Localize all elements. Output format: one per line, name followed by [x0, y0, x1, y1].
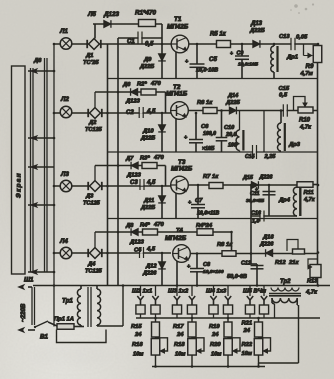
svg-text:20,0: 20,0: [225, 132, 237, 138]
svg-text:Д6: Д6: [122, 82, 131, 88]
svg-text:С5: С5: [209, 56, 217, 63]
svg-text:Д8: Д8: [125, 223, 134, 229]
svg-text:МП42Б: МП42Б: [165, 235, 187, 242]
svg-text:+: +: [230, 51, 233, 57]
svg-text:24: 24: [176, 332, 184, 338]
svg-text:R5 1к: R5 1к: [210, 32, 227, 38]
svg-text:R19: R19: [209, 324, 220, 330]
svg-text:100,0: 100,0: [203, 131, 216, 137]
svg-text:R7 1к: R7 1к: [203, 174, 219, 180]
svg-text:100: 100: [228, 143, 237, 149]
svg-text:С1: С1: [127, 39, 135, 45]
svg-text:R20: R20: [210, 342, 221, 348]
svg-text:R22: R22: [242, 342, 253, 348]
svg-text:Л4: Л4: [59, 238, 68, 245]
svg-text:R12: R12: [275, 260, 286, 266]
svg-text:С13: С13: [279, 34, 290, 40]
svg-text:R1*470: R1*470: [135, 10, 157, 17]
svg-text:10м: 10м: [242, 351, 253, 357]
svg-text:4,7к: 4,7к: [303, 197, 316, 203]
svg-text:Тр1: Тр1: [62, 298, 73, 305]
svg-text:1,0: 1,0: [252, 219, 260, 225]
svg-text:30,0×5Б: 30,0×5Б: [246, 198, 265, 204]
svg-text:R17: R17: [173, 324, 184, 330]
svg-text:10,0×100: 10,0×100: [203, 269, 224, 275]
svg-text:10м: 10м: [175, 352, 186, 358]
svg-text:ТС125: ТС125: [85, 269, 103, 275]
svg-text:R15: R15: [131, 324, 142, 330]
svg-text:Ш5 ВЧм: Ш5 ВЧм: [243, 289, 267, 295]
svg-text:Д123: Д123: [103, 11, 120, 18]
svg-text:Л2: Л2: [60, 96, 69, 103]
svg-text:R4*: R4*: [140, 223, 150, 229]
svg-text:С4: С4: [134, 248, 142, 254]
svg-text:С10: С10: [224, 125, 235, 131]
svg-text:Д226: Д226: [259, 175, 274, 181]
svg-text:10м: 10м: [133, 352, 144, 358]
svg-text:Пр1 1А: Пр1 1А: [54, 317, 74, 323]
svg-text:Д22Б: Д22Б: [140, 205, 155, 211]
svg-text:Д4: Д4: [87, 262, 96, 268]
svg-text:Д9: Д9: [143, 57, 152, 63]
svg-text:24: 24: [134, 332, 142, 338]
svg-text:МП42Б: МП42Б: [171, 166, 193, 173]
svg-text:R8 1к: R8 1к: [217, 242, 233, 248]
svg-text:0,5: 0,5: [279, 93, 288, 99]
svg-text:R11: R11: [304, 190, 314, 196]
svg-text:Д3: Д3: [85, 194, 94, 200]
svg-text:R21: R21: [242, 321, 253, 327]
svg-text:R4*24: R4*24: [196, 223, 213, 229]
svg-text:×10Б: ×10Б: [202, 146, 215, 152]
svg-text:Ш4 1х3: Ш4 1х3: [206, 289, 227, 295]
svg-text:Др3: Др3: [288, 142, 301, 148]
svg-text:R13: R13: [307, 279, 318, 285]
svg-text:2,25: 2,25: [264, 154, 277, 160]
svg-text:Д22Б: Д22Б: [249, 28, 265, 34]
svg-text:Тр2: Тр2: [280, 279, 291, 285]
svg-text:R9: R9: [306, 63, 314, 70]
svg-text:ТС′25: ТС′25: [83, 60, 99, 66]
svg-text:Экран: Экран: [16, 172, 23, 198]
svg-text:470: 470: [153, 222, 164, 228]
svg-text:Д1: Д1: [85, 53, 93, 59]
svg-text:10,0:10Б: 10,0:10Б: [238, 62, 259, 68]
svg-text:В1: В1: [40, 334, 48, 341]
svg-text:10м: 10м: [211, 352, 222, 358]
svg-text:~220В: ~220В: [20, 303, 27, 322]
svg-text:Д14: Д14: [227, 93, 239, 99]
svg-text:С12: С12: [241, 261, 251, 267]
svg-text:Ш3 1х2: Ш3 1х2: [168, 289, 189, 295]
svg-text:Д123: Д123: [125, 99, 141, 105]
svg-text:R16: R16: [132, 342, 143, 348]
svg-text:4,5: 4,5: [146, 247, 156, 253]
svg-text:МП42Б: МП42Б: [167, 24, 189, 31]
svg-text:Т4: Т4: [176, 228, 184, 234]
svg-text:4,7к: 4,7к: [305, 290, 318, 296]
svg-text:Л3: Л3: [60, 171, 69, 178]
svg-text:24: 24: [243, 328, 251, 334]
svg-text:Д15: Д15: [242, 175, 254, 181]
svg-text:С6: С6: [201, 124, 209, 130]
svg-text:Д225: Д225: [225, 100, 241, 106]
svg-text:Д2: Д2: [88, 120, 97, 126]
svg-text:С16: С16: [251, 211, 262, 217]
svg-text:Д11: Д11: [143, 198, 154, 204]
svg-text:ТС125: ТС125: [83, 201, 101, 207]
svg-text:R3*: R3*: [140, 156, 150, 162]
svg-text:Д12: Д12: [145, 264, 157, 270]
svg-text:Д6: Д6: [33, 58, 42, 64]
svg-text:С14: С14: [245, 154, 255, 160]
svg-text:10,0×11В: 10,0×11В: [197, 211, 220, 217]
svg-text:Д13: Д13: [250, 21, 263, 27]
svg-text:21к: 21к: [288, 260, 299, 266]
svg-text:24: 24: [211, 332, 219, 338]
svg-text:С3: С3: [130, 180, 138, 186]
svg-text:С15: С15: [279, 86, 290, 92]
svg-text:Д7: Д7: [125, 156, 134, 162]
svg-text:4,5: 4,5: [146, 109, 156, 115]
svg-text:4,5: 4,5: [146, 180, 156, 186]
svg-text:50,0·6В: 50,0·6В: [227, 274, 247, 280]
svg-text:С8: С8: [203, 262, 211, 268]
svg-text:С7: С7: [195, 198, 203, 204]
svg-text:Д16: Д16: [262, 235, 274, 241]
svg-text:Ш2 1х1: Ш2 1х1: [132, 289, 152, 295]
svg-text:Др1: Др1: [286, 55, 298, 61]
svg-text:470: 470: [150, 81, 161, 87]
svg-text:0,5: 0,5: [145, 42, 154, 48]
svg-text:10,0·10В: 10,0·10В: [196, 68, 218, 74]
svg-text:Д10: Д10: [142, 129, 154, 135]
svg-text:Д22Б: Д22Б: [139, 64, 154, 70]
svg-text:Т1: Т1: [174, 16, 182, 23]
svg-text:С9: С9: [237, 51, 244, 57]
svg-text:R6 1к: R6 1к: [197, 100, 213, 106]
svg-text:4,7к: 4,7к: [299, 125, 312, 131]
svg-text:МП41Б: МП41Б: [166, 91, 188, 98]
svg-text:Л1: Л1: [59, 28, 68, 35]
svg-text:Ш1: Ш1: [24, 277, 34, 284]
svg-text:Д226: Д226: [142, 271, 157, 277]
svg-text:R18: R18: [174, 342, 185, 348]
svg-text:R10: R10: [299, 118, 311, 124]
svg-text:+: +: [255, 187, 258, 193]
svg-text:ТС125: ТС125: [85, 127, 103, 133]
svg-text:Д22Б: Д22Б: [140, 136, 155, 142]
svg-text:Д123: Д123: [129, 240, 145, 246]
svg-text:R2*: R2*: [137, 82, 147, 88]
svg-text:С2: С2: [126, 110, 134, 116]
svg-text:470: 470: [153, 155, 164, 161]
svg-text:Д226: Д226: [259, 242, 274, 248]
svg-text:Л5: Л5: [87, 11, 96, 18]
svg-text:Др4: Др4: [278, 198, 291, 204]
svg-text:4,7м: 4,7м: [300, 71, 314, 77]
svg-text:Д123: Д123: [126, 173, 142, 179]
svg-text:0,05: 0,05: [296, 35, 308, 41]
